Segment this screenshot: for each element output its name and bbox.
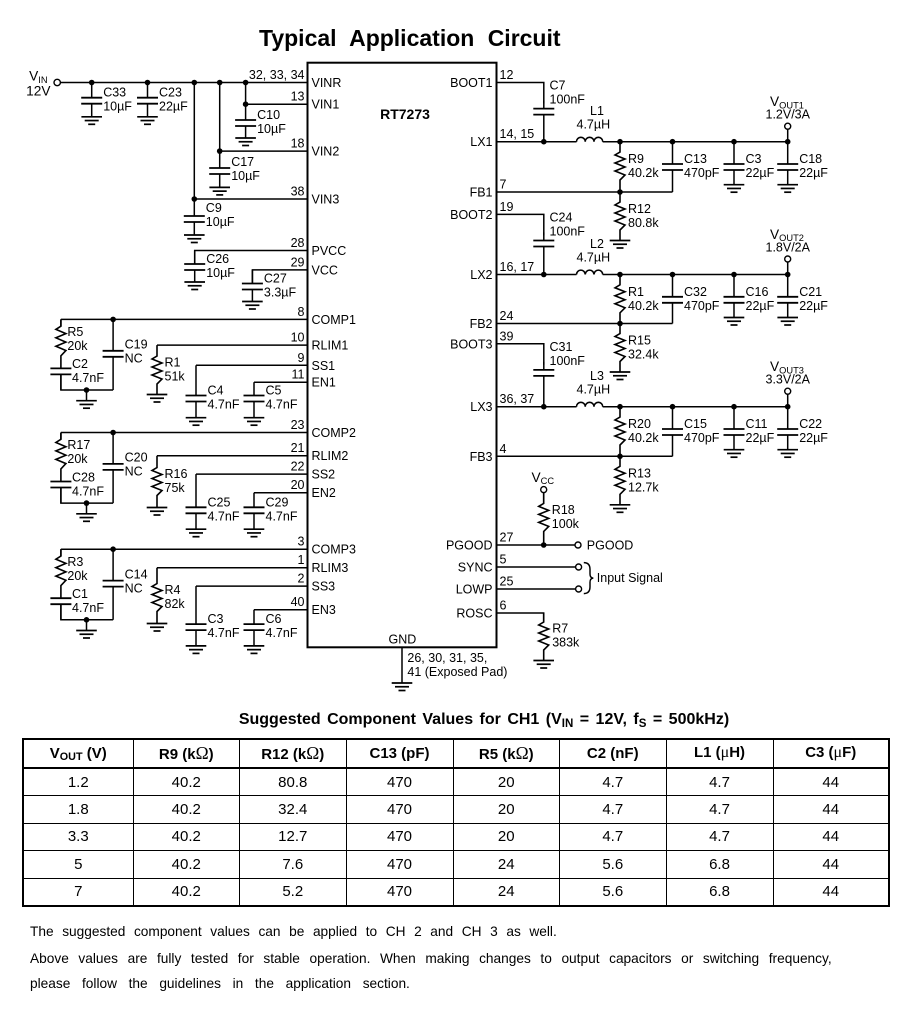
svg-text:R20: R20 — [628, 417, 651, 431]
svg-text:10µF: 10µF — [206, 266, 235, 280]
capacitor C29 — [244, 493, 298, 530]
node VOUT2 output terminal — [787, 262, 789, 275]
svg-text:C13: C13 — [684, 152, 707, 166]
svg-text:R3: R3 — [67, 555, 83, 569]
svg-text:10µF: 10µF — [231, 169, 260, 183]
svg-text:R18: R18 — [552, 503, 575, 517]
svg-text:FB1: FB1 — [470, 186, 493, 200]
svg-text:40.2k: 40.2k — [628, 166, 659, 180]
svg-text:1: 1 — [298, 553, 305, 567]
svg-text:PGOOD: PGOOD — [587, 538, 634, 552]
resistor R5 — [56, 319, 88, 368]
capacitor C7 — [533, 79, 585, 142]
svg-text:C3: C3 — [746, 152, 762, 166]
ground — [533, 661, 554, 669]
svg-text:4.7nF: 4.7nF — [266, 626, 298, 640]
junction — [617, 321, 623, 327]
svg-text:R12: R12 — [628, 202, 651, 216]
capacitor C11 — [724, 407, 775, 450]
ground — [777, 450, 798, 458]
capacitor C23 — [137, 83, 188, 117]
svg-text:12V: 12V — [26, 83, 51, 98]
wire BOOT — [497, 344, 544, 365]
capacitor C22 — [777, 407, 828, 450]
wire BOOT — [497, 83, 544, 104]
ground — [147, 624, 168, 632]
svg-text:RT7273: RT7273 — [380, 106, 430, 122]
svg-text:13: 13 — [291, 90, 305, 104]
wire VCC — [252, 270, 307, 284]
ground — [76, 631, 97, 639]
svg-text:C27: C27 — [264, 272, 287, 286]
svg-text:14, 15: 14, 15 — [500, 127, 535, 141]
svg-text:40: 40 — [291, 595, 305, 609]
svg-text:28: 28 — [291, 236, 305, 250]
wire BOOT — [497, 214, 544, 235]
svg-text:C26: C26 — [206, 252, 229, 266]
svg-text:C10: C10 — [257, 108, 280, 122]
svg-text:383k: 383k — [552, 636, 580, 650]
svg-text:10µF: 10µF — [103, 100, 132, 114]
svg-text:VINR: VINR — [312, 76, 342, 90]
ground — [76, 514, 97, 522]
ground — [137, 117, 158, 125]
junction — [110, 546, 116, 552]
svg-text:SS2: SS2 — [312, 468, 336, 482]
ground — [76, 401, 97, 409]
svg-text:C18: C18 — [799, 152, 822, 166]
svg-text:18: 18 — [291, 137, 305, 151]
svg-text:RLIM1: RLIM1 — [312, 339, 349, 353]
wire FB rail — [497, 323, 673, 325]
svg-text:C31: C31 — [550, 340, 573, 354]
svg-text:4.7nF: 4.7nF — [72, 484, 104, 498]
svg-text:C7: C7 — [550, 79, 566, 93]
svg-text:36, 37: 36, 37 — [500, 392, 535, 406]
junction — [617, 272, 623, 278]
svg-text:38: 38 — [291, 185, 305, 199]
wire bottom rail — [61, 374, 113, 390]
junction — [110, 317, 116, 323]
resistor R7 — [539, 613, 580, 661]
svg-text:27: 27 — [500, 531, 514, 545]
capacitor C13 — [662, 142, 720, 192]
capacitor C10 — [235, 104, 286, 138]
wire COMP row — [61, 318, 308, 320]
svg-text:NC: NC — [125, 352, 143, 366]
ground — [186, 529, 207, 537]
svg-text:4.7nF: 4.7nF — [208, 398, 240, 412]
SYNC terminal circle — [576, 564, 582, 570]
capacitor C16 — [724, 275, 775, 318]
wire output rail — [603, 406, 788, 408]
svg-text:R1: R1 — [165, 356, 181, 370]
wire PGOOD — [497, 544, 576, 546]
resistor R18 — [539, 493, 580, 545]
svg-text:2: 2 — [298, 572, 305, 586]
svg-text:RLIM2: RLIM2 — [312, 449, 349, 463]
wire COMP row — [61, 548, 308, 550]
svg-text:LX2: LX2 — [470, 268, 492, 282]
svg-text:4.7nF: 4.7nF — [266, 398, 298, 412]
junction — [145, 80, 151, 86]
wire LX — [497, 274, 577, 276]
capacitor C17 — [209, 151, 260, 187]
svg-text:26, 30, 31, 35,: 26, 30, 31, 35, — [407, 651, 487, 665]
junction — [731, 404, 737, 410]
capacitor C33 — [81, 83, 132, 117]
ground — [184, 282, 205, 290]
svg-text:C22: C22 — [799, 417, 822, 431]
svg-text:4.7nF: 4.7nF — [72, 601, 104, 615]
svg-text:VCC: VCC — [532, 470, 555, 486]
svg-text:C15: C15 — [684, 417, 707, 431]
svg-text:BOOT2: BOOT2 — [450, 208, 492, 222]
svg-text:SS3: SS3 — [312, 580, 336, 594]
svg-text:COMP1: COMP1 — [312, 313, 357, 327]
svg-text:R13: R13 — [628, 466, 651, 480]
junction — [192, 196, 198, 202]
svg-text:1.2V/3A: 1.2V/3A — [766, 108, 811, 122]
svg-text:24: 24 — [500, 309, 514, 323]
footnote line 1 — [30, 924, 557, 940]
capacitor C6 — [244, 610, 298, 646]
svg-text:PGOOD: PGOOD — [446, 539, 493, 553]
capacitor C26 — [184, 251, 235, 283]
wire EN row — [254, 381, 308, 383]
ground — [724, 450, 745, 458]
resistor R13 — [615, 456, 659, 505]
svg-text:C25: C25 — [208, 495, 231, 509]
resistor R15 — [615, 324, 659, 373]
junction — [670, 272, 676, 278]
junction — [670, 404, 676, 410]
svg-text:75k: 75k — [165, 481, 186, 495]
svg-text:4.7nF: 4.7nF — [266, 509, 298, 523]
wire to ground — [86, 390, 88, 401]
ground — [147, 508, 168, 516]
wire COMP row — [61, 432, 308, 434]
table title — [239, 711, 729, 729]
junction — [89, 80, 95, 86]
svg-text:C5: C5 — [266, 384, 282, 398]
svg-text:4.7µH: 4.7µH — [577, 251, 611, 265]
ground — [724, 318, 745, 326]
svg-text:100k: 100k — [552, 517, 580, 531]
svg-text:BOOT1: BOOT1 — [450, 76, 492, 90]
wire to ground — [86, 620, 88, 631]
svg-text:C33: C33 — [103, 86, 126, 100]
junction — [541, 272, 547, 278]
junction — [110, 430, 116, 436]
svg-text:C20: C20 — [125, 451, 148, 465]
svg-text:C1: C1 — [72, 587, 88, 601]
wire VIN rail to VINR — [60, 82, 307, 84]
wire output rail — [603, 141, 788, 143]
PGOOD terminal circle — [575, 542, 581, 548]
ground — [392, 683, 413, 691]
svg-text:NC: NC — [125, 581, 143, 595]
svg-text:51k: 51k — [165, 370, 186, 384]
VIN terminal circle — [54, 79, 60, 85]
wire FB rail — [497, 455, 673, 457]
svg-text:EN2: EN2 — [312, 486, 336, 500]
svg-text:10µF: 10µF — [257, 122, 286, 136]
svg-text:C21: C21 — [799, 285, 822, 299]
svg-text:4.7nF: 4.7nF — [72, 371, 104, 385]
svg-text:22µF: 22µF — [799, 299, 828, 313]
inductor L1 — [577, 137, 603, 141]
junction — [617, 454, 623, 460]
svg-text:R1: R1 — [628, 285, 644, 299]
capacitor C24 — [533, 211, 585, 275]
capacitor C3 — [724, 142, 775, 185]
svg-text:100nF: 100nF — [550, 93, 586, 107]
inductor L3 — [577, 402, 603, 406]
wire VIN2 — [220, 150, 308, 152]
wire RLIM row — [157, 455, 308, 457]
wire GND exposed pad — [401, 647, 403, 683]
ground — [244, 418, 265, 426]
wire EN row — [254, 609, 308, 611]
svg-text:10: 10 — [291, 331, 305, 345]
wire FB rail — [497, 191, 673, 193]
svg-text:20k: 20k — [67, 569, 88, 583]
svg-text:R5: R5 — [67, 325, 83, 339]
svg-text:22µF: 22µF — [799, 166, 828, 180]
resistor R1 — [615, 275, 659, 324]
svg-text:3: 3 — [298, 535, 305, 549]
svg-text:19: 19 — [500, 200, 514, 214]
inductor L2 — [577, 270, 603, 274]
svg-text:EN3: EN3 — [312, 603, 336, 617]
svg-text:32, 33, 34: 32, 33, 34 — [249, 68, 305, 82]
junction — [670, 139, 676, 145]
capacitor C20 — [103, 433, 148, 504]
wire bottom rail — [61, 604, 113, 620]
svg-text:10µF: 10µF — [206, 215, 235, 229]
svg-text:EN1: EN1 — [312, 376, 336, 390]
svg-text:C32: C32 — [684, 285, 707, 299]
wire — [60, 549, 62, 556]
wire SYNC — [497, 566, 576, 568]
junction — [617, 139, 623, 145]
capacitor C18 — [777, 142, 828, 185]
capacitor C14 — [103, 549, 148, 620]
brace for input signal — [584, 563, 594, 594]
svg-text:R16: R16 — [165, 467, 188, 481]
svg-text:12: 12 — [500, 68, 514, 82]
svg-text:L3: L3 — [590, 369, 604, 383]
capacitor C9 — [184, 199, 235, 235]
capacitor C2 — [50, 357, 104, 390]
junction — [617, 404, 623, 410]
ground — [610, 372, 631, 380]
svg-text:LOWP: LOWP — [456, 583, 493, 597]
junction — [617, 189, 623, 195]
svg-text:4.7µH: 4.7µH — [577, 118, 611, 132]
svg-text:LX3: LX3 — [470, 400, 492, 414]
svg-text:C24: C24 — [550, 211, 573, 225]
ground — [610, 241, 631, 249]
junction — [192, 80, 198, 86]
junction — [217, 80, 223, 86]
wire output rail — [603, 274, 788, 276]
wire SS row — [196, 473, 308, 475]
svg-text:ROSC: ROSC — [456, 607, 492, 621]
ground — [724, 185, 745, 193]
capacitor C32 — [662, 275, 720, 324]
junction — [541, 542, 547, 548]
svg-text:C3: C3 — [208, 612, 224, 626]
svg-text:21: 21 — [291, 441, 305, 455]
node VOUT1 output terminal — [787, 129, 789, 142]
svg-text:82k: 82k — [165, 597, 186, 611]
ground — [147, 395, 168, 403]
svg-text:GND: GND — [389, 633, 417, 647]
ground — [186, 418, 207, 426]
svg-text:VCC: VCC — [312, 263, 338, 277]
resistor R9 — [615, 142, 659, 192]
svg-text:R15: R15 — [628, 334, 651, 348]
resistor R17 — [56, 433, 90, 482]
svg-text:C29: C29 — [266, 495, 289, 509]
junction — [785, 404, 791, 410]
svg-text:C4: C4 — [208, 384, 224, 398]
wire VCC to R18 — [543, 493, 545, 503]
svg-text:4.7nF: 4.7nF — [208, 626, 240, 640]
svg-text:39: 39 — [500, 329, 514, 343]
wire — [60, 319, 62, 326]
svg-text:PVCC: PVCC — [312, 244, 347, 258]
ground — [184, 235, 205, 243]
svg-text:SS1: SS1 — [312, 359, 336, 373]
junction — [243, 80, 249, 86]
svg-text:12.7k: 12.7k — [628, 480, 659, 494]
svg-text:C6: C6 — [266, 612, 282, 626]
svg-text:VIN3: VIN3 — [312, 193, 340, 207]
ground — [610, 505, 631, 513]
svg-text:R17: R17 — [67, 438, 90, 452]
svg-text:R7: R7 — [552, 622, 568, 636]
svg-text:6: 6 — [500, 599, 507, 613]
ground — [777, 185, 798, 193]
svg-text:22µF: 22µF — [799, 431, 828, 445]
svg-text:3.3µF: 3.3µF — [264, 286, 297, 300]
junction — [84, 500, 90, 506]
svg-text:COMP3: COMP3 — [312, 543, 357, 557]
svg-text:41 (Exposed Pad): 41 (Exposed Pad) — [407, 665, 507, 679]
svg-text:L1: L1 — [590, 104, 604, 118]
svg-text:RLIM3: RLIM3 — [312, 561, 349, 575]
junction — [541, 404, 547, 410]
svg-text:Input Signal: Input Signal — [597, 571, 663, 585]
svg-text:VIN2: VIN2 — [312, 145, 340, 159]
svg-text:29: 29 — [291, 255, 305, 269]
svg-text:C14: C14 — [125, 567, 148, 581]
svg-text:C11: C11 — [746, 417, 768, 431]
svg-text:22: 22 — [291, 460, 305, 474]
resistor R12 — [615, 192, 659, 241]
svg-text:25: 25 — [500, 575, 514, 589]
svg-text:4.7nF: 4.7nF — [208, 509, 240, 523]
ground — [244, 529, 265, 537]
junction — [84, 387, 90, 393]
svg-text:9: 9 — [298, 351, 305, 365]
svg-text:LX1: LX1 — [470, 135, 492, 149]
svg-text:4.7µH: 4.7µH — [577, 383, 611, 397]
wire VIN1 — [246, 103, 308, 105]
ground — [242, 302, 263, 310]
svg-text:C28: C28 — [72, 470, 95, 484]
svg-text:C23: C23 — [159, 86, 182, 100]
svg-text:R9: R9 — [628, 152, 644, 166]
svg-text:4: 4 — [500, 442, 507, 456]
wire PVCC — [195, 251, 308, 265]
svg-text:470pF: 470pF — [684, 166, 720, 180]
svg-text:20: 20 — [291, 478, 305, 492]
wire rail to VIN2 — [219, 83, 221, 152]
svg-text:20k: 20k — [67, 339, 88, 353]
capacitor C25 — [186, 474, 240, 529]
footnote line 3 — [30, 976, 410, 992]
wire EN row — [254, 492, 308, 494]
junction — [217, 148, 223, 154]
svg-text:16, 17: 16, 17 — [500, 260, 535, 274]
ground — [81, 117, 102, 125]
svg-text:FB3: FB3 — [470, 450, 493, 464]
wire RLIM row — [157, 344, 308, 346]
svg-text:COMP2: COMP2 — [312, 426, 357, 440]
capacitor C28 — [50, 470, 104, 503]
capacitor C4 — [186, 365, 240, 417]
wire RLIM row — [157, 567, 308, 569]
svg-text:80.8k: 80.8k — [628, 216, 659, 230]
svg-text:32.4k: 32.4k — [628, 348, 659, 362]
node VOUT3 output terminal — [787, 394, 789, 407]
wire bottom rail — [61, 488, 113, 504]
resistor R16 — [152, 456, 187, 508]
svg-text:C2: C2 — [72, 357, 88, 371]
svg-text:11: 11 — [292, 368, 305, 382]
wire LOWP — [497, 588, 576, 590]
svg-text:VIN1: VIN1 — [312, 98, 340, 112]
resistor R4 — [152, 568, 185, 624]
wire VIN3 — [194, 198, 307, 200]
svg-text:100nF: 100nF — [550, 354, 586, 368]
svg-text:23: 23 — [291, 418, 305, 432]
junction — [243, 101, 249, 107]
svg-text:BOOT3: BOOT3 — [450, 337, 492, 351]
svg-text:L2: L2 — [590, 237, 604, 251]
wire rail to VIN3 — [193, 83, 195, 200]
svg-text:5: 5 — [500, 553, 507, 567]
ground — [244, 646, 265, 654]
resistor R1 — [152, 345, 185, 394]
resistor R20 — [615, 407, 659, 457]
capacitor C3 — [186, 586, 240, 646]
wire SS row — [196, 364, 308, 366]
component values table — [22, 738, 890, 907]
resistor R3 — [56, 549, 88, 598]
wire ROSC — [497, 613, 544, 622]
svg-text:3.3V/2A: 3.3V/2A — [766, 373, 811, 387]
svg-text:SYNC: SYNC — [458, 561, 493, 575]
wire LX — [497, 406, 577, 408]
junction — [731, 139, 737, 145]
svg-text:8: 8 — [298, 305, 305, 319]
svg-text:22µF: 22µF — [746, 299, 775, 313]
